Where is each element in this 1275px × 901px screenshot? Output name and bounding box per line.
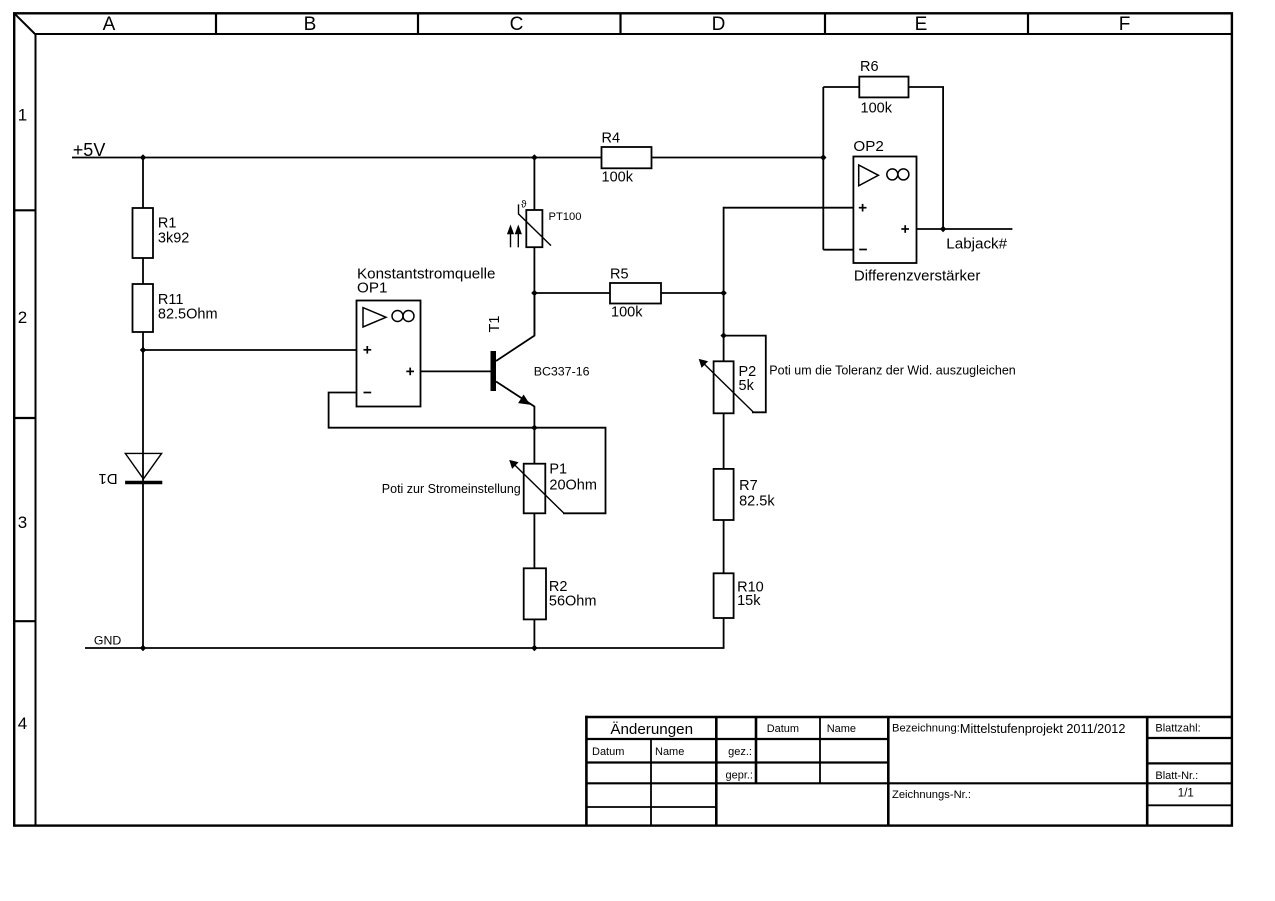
svg-text:20Ohm: 20Ohm bbox=[549, 478, 597, 494]
svg-text:82.5k: 82.5k bbox=[739, 493, 775, 509]
svg-text:Bezeichnung:: Bezeichnung: bbox=[892, 723, 960, 735]
svg-text:Poti um die Toleranz der Wid.: Poti um die Toleranz der Wid. auszugleic… bbox=[769, 364, 1015, 378]
titleblock vertical Datum/Name divider bbox=[650, 739, 652, 826]
wire R1 to R11 bbox=[142, 258, 144, 284]
titleblock row line right column above Blatt-Nr bbox=[1147, 762, 1232, 764]
svg-text:1/1: 1/1 bbox=[1178, 787, 1194, 799]
svg-text:R6: R6 bbox=[860, 59, 879, 75]
wire OP2 output bbox=[917, 228, 1013, 230]
junction +5V/feedback bbox=[820, 154, 826, 160]
svg-text:T1: T1 bbox=[487, 316, 503, 333]
svg-text:OP1: OP1 bbox=[357, 280, 387, 297]
junction OP2 output/R6 bbox=[940, 226, 946, 232]
svg-text:GND: GND bbox=[94, 634, 121, 648]
column divider B/C bbox=[417, 13, 419, 34]
wire R5 right bbox=[661, 292, 724, 294]
svg-text:F: F bbox=[1119, 14, 1131, 35]
wire R10 to GND bbox=[723, 618, 725, 648]
column divider D/E bbox=[824, 13, 826, 34]
wire right rail top (OP2 + input down to P2) bbox=[724, 208, 854, 362]
junction R5/right rail bbox=[720, 290, 726, 296]
svg-text:C: C bbox=[510, 14, 524, 35]
wire P1 top bbox=[533, 428, 535, 464]
junction R11/OP1+ bbox=[140, 347, 146, 353]
svg-text:100k: 100k bbox=[861, 101, 893, 117]
row divider 2/3 bbox=[14, 417, 35, 419]
svg-text:R5: R5 bbox=[610, 267, 629, 283]
svg-text:PT100: PT100 bbox=[549, 211, 582, 223]
svg-text:100k: 100k bbox=[611, 305, 643, 321]
svg-text:15k: 15k bbox=[737, 593, 761, 609]
svg-text:B: B bbox=[304, 14, 317, 35]
wire OP1 feedback to P1 wiper loop bbox=[329, 393, 606, 514]
svg-text:R1: R1 bbox=[158, 216, 177, 232]
svg-text:P1: P1 bbox=[549, 462, 567, 478]
op-amp U1 OP1 bbox=[357, 301, 421, 407]
titleblock row line right column under Blattzahl bbox=[1147, 737, 1232, 739]
svg-text:4: 4 bbox=[18, 714, 27, 733]
svg-text:Mittelstufenprojekt 2011/2012: Mittelstufenprojekt 2011/2012 bbox=[960, 722, 1126, 736]
junction P2 top bbox=[720, 332, 726, 338]
wire PT100 branch top bbox=[533, 158, 535, 211]
svg-text:3k92: 3k92 bbox=[158, 231, 189, 247]
svg-text:OP2: OP2 bbox=[853, 138, 883, 155]
potentiometer P1 bbox=[509, 460, 597, 513]
svg-text:Labjack#: Labjack# bbox=[946, 235, 1007, 252]
svg-text:+5V: +5V bbox=[73, 140, 106, 160]
resistor R11 bbox=[133, 284, 154, 332]
resistor R2 bbox=[524, 568, 546, 619]
junction +5V/PT100 bbox=[531, 154, 537, 160]
svg-text:R4: R4 bbox=[602, 131, 621, 147]
svg-text:100k: 100k bbox=[602, 170, 634, 186]
svg-text:2: 2 bbox=[18, 308, 27, 327]
svg-text:R2: R2 bbox=[549, 579, 568, 595]
wire R2 to GND bbox=[533, 619, 535, 648]
wire P2 wiper loop bbox=[724, 336, 766, 413]
titleblock vertical right of Aenderungen bbox=[715, 717, 718, 826]
svg-text:Name: Name bbox=[827, 723, 856, 735]
titleblock vertical Datum/Name header divider bbox=[819, 717, 821, 783]
frame corner diagonal bbox=[14, 13, 35, 34]
svg-text:Differenzverstärker: Differenzverstärker bbox=[854, 267, 980, 284]
svg-text:E: E bbox=[915, 14, 928, 35]
svg-text:ϑ: ϑ bbox=[521, 200, 527, 211]
transistor T1 emitter with arrow bbox=[496, 382, 534, 428]
wire P2 to R7 bbox=[723, 413, 725, 469]
titleblock row line Aenderungen sub bbox=[586, 806, 716, 808]
diode D1 bbox=[98, 453, 162, 486]
svg-text:gez.:: gez.: bbox=[728, 746, 752, 758]
wire R11 to GND through D1 bbox=[142, 332, 144, 648]
svg-text:Zeichnungs-Nr.:: Zeichnungs-Nr.: bbox=[892, 789, 971, 801]
svg-text:5k: 5k bbox=[739, 378, 755, 394]
wire P1 to R2 bbox=[533, 513, 535, 568]
column divider A/B bbox=[215, 13, 217, 34]
op-amp U2 OP2 bbox=[853, 157, 916, 264]
transistor Q1 T1 base bar bbox=[491, 351, 497, 391]
column divider E/F bbox=[1027, 13, 1029, 34]
wire OP2 feedback vertical bbox=[822, 87, 824, 250]
svg-text:R7: R7 bbox=[739, 478, 758, 494]
wire +5V rail bbox=[72, 157, 823, 159]
resistor R5 bbox=[610, 283, 661, 304]
wire OP1 output to T1 base bbox=[421, 370, 491, 372]
titleblock outer top line bbox=[585, 716, 1232, 719]
svg-text:1: 1 bbox=[18, 106, 27, 125]
titleblock vertical left of Blattzahl bbox=[1146, 717, 1149, 826]
top band bottom line bbox=[36, 33, 1232, 35]
resistor R4 bbox=[602, 147, 652, 168]
svg-text:Datum: Datum bbox=[592, 746, 624, 758]
junction GND/R2 bbox=[531, 645, 537, 651]
titleblock row line under gez bbox=[586, 761, 888, 763]
left band right line bbox=[35, 34, 37, 826]
svg-text:Name: Name bbox=[655, 746, 684, 758]
junction feedback/P1 bbox=[531, 425, 537, 431]
sensor PT100 bbox=[507, 200, 551, 248]
svg-text:3: 3 bbox=[18, 513, 27, 532]
svg-text:D1: D1 bbox=[98, 470, 117, 487]
titleblock left edge bbox=[585, 716, 588, 826]
svg-text:82.5Ohm: 82.5Ohm bbox=[158, 307, 218, 323]
row divider 3/4 bbox=[14, 620, 35, 622]
wire OP2 - input bbox=[823, 249, 853, 251]
wire left branch vertical (R1/R11/D1) bbox=[142, 158, 144, 209]
titleblock row line under headers bbox=[586, 738, 888, 740]
junction +5V/R1 bbox=[140, 154, 146, 160]
svg-text:Blattzahl:: Blattzahl: bbox=[1155, 723, 1200, 735]
resistor R7 bbox=[714, 469, 734, 520]
wire PT100 to T1 collector junction bbox=[533, 247, 535, 335]
svg-text:Poti zur Stromeinstellung: Poti zur Stromeinstellung bbox=[382, 482, 521, 496]
potentiometer P2 bbox=[699, 359, 757, 413]
titleblock row line full under gepr/Bezeichnung bbox=[586, 782, 1232, 784]
wire R5 left bbox=[534, 292, 610, 294]
svg-text:BC337-16: BC337-16 bbox=[534, 365, 590, 379]
titleblock vertical right of gez column bbox=[755, 717, 758, 783]
wire OP1 + input bbox=[143, 349, 357, 351]
svg-text:56Ohm: 56Ohm bbox=[549, 594, 597, 610]
TITLEBLOCK bbox=[585, 716, 1232, 826]
svg-text:A: A bbox=[103, 14, 116, 35]
titleblock row line right column under 1/1 bbox=[1147, 804, 1232, 806]
titleblock vertical left of Bezeichnung bbox=[887, 717, 890, 826]
resistor R1 bbox=[133, 208, 154, 258]
resistor R6 bbox=[859, 77, 908, 98]
row divider 1/2 bbox=[14, 209, 35, 211]
column divider C/D bbox=[619, 13, 621, 34]
wire R6 right to output bbox=[909, 87, 944, 229]
svg-text:gepr.:: gepr.: bbox=[725, 770, 753, 782]
svg-text:Blatt-Nr.:: Blatt-Nr.: bbox=[1155, 770, 1198, 782]
junction GND/D1 bbox=[140, 645, 146, 651]
svg-text:D: D bbox=[712, 14, 726, 35]
wire GND rail bbox=[85, 647, 725, 649]
resistor R10 bbox=[714, 573, 734, 618]
wire R6 left bbox=[823, 86, 859, 88]
svg-text:Datum: Datum bbox=[767, 723, 799, 735]
transistor T1 collector bbox=[496, 293, 534, 361]
junction PT100/R5 bbox=[531, 290, 537, 296]
svg-text:Änderungen: Änderungen bbox=[610, 721, 693, 738]
wire R7 to R10 bbox=[723, 520, 725, 573]
